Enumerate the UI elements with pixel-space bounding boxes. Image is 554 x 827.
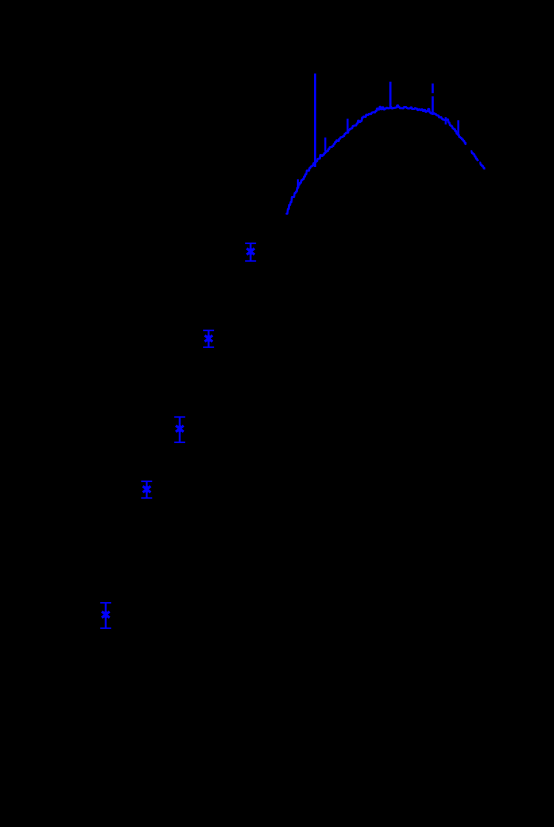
data point P3: marker with error bar [174, 417, 185, 442]
emission line spike (tall, x=315) [314, 74, 316, 168]
spectrum curve (solid) [287, 105, 466, 213]
emission line spike (small, x=298) [297, 179, 299, 187]
data point P4: marker with error bar [141, 481, 152, 498]
data point P2: marker with error bar [203, 330, 214, 347]
emission line spike (x=458) [457, 120, 459, 135]
data point P5: marker with error bar [100, 603, 111, 628]
data point P1: marker with error bar [245, 243, 256, 261]
emission line spike (x=446) [445, 117, 447, 124]
emission line spike (x=433, dashed) [432, 84, 434, 94]
spectrum curve dashed tail segment 1 [471, 151, 478, 161]
spectrum curve dashed tail segment 2 [479, 163, 484, 170]
emission line spike (x=348) [347, 119, 349, 132]
emission line spike (x=390) [389, 82, 391, 108]
emission line spike (x=325) [324, 138, 326, 152]
